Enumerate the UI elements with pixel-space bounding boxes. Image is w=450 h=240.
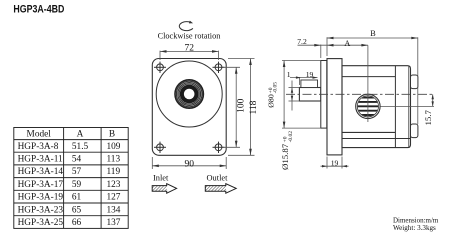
svg-text:59: 59 xyxy=(72,180,82,190)
svg-text:100: 100 xyxy=(237,98,247,113)
dim B xyxy=(327,37,418,124)
svg-text:-0.02: -0.02 xyxy=(288,131,294,143)
svg-text:134: 134 xyxy=(107,205,121,215)
shaft xyxy=(299,88,320,102)
svg-text:Ø15.87: Ø15.87 xyxy=(280,143,290,170)
svg-text:-0.05: -0.05 xyxy=(273,82,279,94)
svg-text:90: 90 xyxy=(184,159,194,169)
dim 7.2 xyxy=(298,44,328,58)
outlet arrow xyxy=(205,184,236,194)
pump body and rear cover xyxy=(342,66,411,148)
svg-text:65: 65 xyxy=(72,205,82,215)
pilot boss xyxy=(321,61,327,129)
svg-text:54: 54 xyxy=(72,155,82,165)
hub rings xyxy=(175,80,203,108)
svg-text:72: 72 xyxy=(184,44,194,54)
svg-text:66: 66 xyxy=(72,218,82,228)
svg-text:B: B xyxy=(109,130,115,140)
svg-text:127: 127 xyxy=(107,193,121,203)
svg-text:Ø80: Ø80 xyxy=(266,94,275,108)
svg-text:137: 137 xyxy=(107,218,121,228)
svg-text:Clockwise rotation: Clockwise rotation xyxy=(158,32,221,41)
bolt hole bottom-right xyxy=(213,142,225,153)
dim diameter 80 xyxy=(282,61,321,129)
svg-text:19: 19 xyxy=(331,158,339,167)
svg-text:1: 1 xyxy=(287,70,291,79)
bolt hole top-right xyxy=(213,62,225,73)
svg-text:Model: Model xyxy=(27,130,52,140)
svg-text:A: A xyxy=(344,39,350,48)
dim 90 xyxy=(152,157,226,169)
svg-text:61: 61 xyxy=(72,193,82,203)
dim A xyxy=(327,44,368,122)
svg-text:109: 109 xyxy=(107,142,121,152)
bolt hole top-left xyxy=(154,62,166,73)
svg-text:HGP-3A-11: HGP-3A-11 xyxy=(18,155,63,165)
front body circle xyxy=(156,61,222,127)
svg-text:Weight: 3.3kgs: Weight: 3.3kgs xyxy=(393,223,436,232)
mounting flange xyxy=(327,59,342,155)
dim 1 and 19 key xyxy=(290,76,318,85)
dim 19 flange xyxy=(321,157,349,169)
svg-text:51.5: 51.5 xyxy=(72,142,89,152)
svg-text:HGP3A-4BD: HGP3A-4BD xyxy=(13,4,64,16)
svg-text:A: A xyxy=(77,130,84,140)
table text xyxy=(18,130,121,229)
front view flange plate xyxy=(152,59,226,156)
bottom port tab xyxy=(411,124,418,138)
svg-text:57: 57 xyxy=(72,167,82,177)
svg-text:19: 19 xyxy=(306,70,314,79)
svg-text:118: 118 xyxy=(249,100,259,114)
svg-text:HGP-3A-25: HGP-3A-25 xyxy=(18,218,64,228)
dim 118 xyxy=(228,59,255,156)
dim diameter 15.87 xyxy=(289,81,300,111)
svg-text:HGP-3A-14: HGP-3A-14 xyxy=(18,167,64,177)
shaft key xyxy=(301,80,318,88)
svg-text:7.2: 7.2 xyxy=(297,37,307,46)
spec table xyxy=(14,128,128,229)
inlet arrow xyxy=(152,184,176,194)
svg-text:HGP-3A-19: HGP-3A-19 xyxy=(18,193,64,203)
svg-text:15.7: 15.7 xyxy=(423,110,433,126)
svg-text:Outlet: Outlet xyxy=(207,174,229,183)
bolt hole bottom-left xyxy=(154,142,166,153)
svg-text:HGP-3A-23: HGP-3A-23 xyxy=(18,205,64,215)
svg-text:Inlet: Inlet xyxy=(153,174,169,183)
side view centerline xyxy=(286,93,434,95)
svg-text:B: B xyxy=(370,29,376,38)
svg-text:113: 113 xyxy=(107,155,121,165)
rotation icon xyxy=(179,21,193,31)
svg-text:119: 119 xyxy=(107,167,121,177)
svg-text:HGP-3A-8: HGP-3A-8 xyxy=(18,142,59,152)
dim 15.7 xyxy=(381,94,435,106)
top port tab xyxy=(411,75,418,89)
dim 100 xyxy=(223,67,240,147)
port circle xyxy=(356,94,380,118)
dim 72 xyxy=(160,50,219,60)
svg-text:HGP-3A-17: HGP-3A-17 xyxy=(18,180,64,190)
svg-text:123: 123 xyxy=(107,180,121,190)
